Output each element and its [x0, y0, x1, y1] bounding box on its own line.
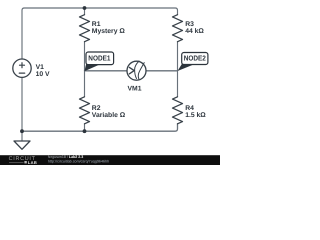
svg-text:http://circuitlab.com/csrq/7uq: http://circuitlab.com/csrq/7uqg9646hh [48, 159, 109, 163]
svg-text:R1: R1 [92, 21, 101, 28]
svg-text:10 V: 10 V [36, 71, 50, 78]
svg-text:NODE2: NODE2 [184, 54, 206, 63]
svg-text:LAB: LAB [28, 160, 37, 165]
svg-text:R4: R4 [185, 105, 194, 112]
svg-text:VM1: VM1 [128, 86, 142, 93]
svg-text:1.5 kΩ: 1.5 kΩ [185, 112, 206, 119]
svg-text:Mystery Ω: Mystery Ω [92, 28, 126, 35]
svg-text:V1: V1 [36, 64, 45, 71]
svg-text:NODE1: NODE1 [88, 53, 110, 62]
svg-text:R3: R3 [185, 21, 194, 28]
svg-text:R2: R2 [92, 105, 101, 112]
svg-text:44 kΩ: 44 kΩ [185, 28, 204, 35]
svg-text:Variable Ω: Variable Ω [92, 112, 126, 119]
